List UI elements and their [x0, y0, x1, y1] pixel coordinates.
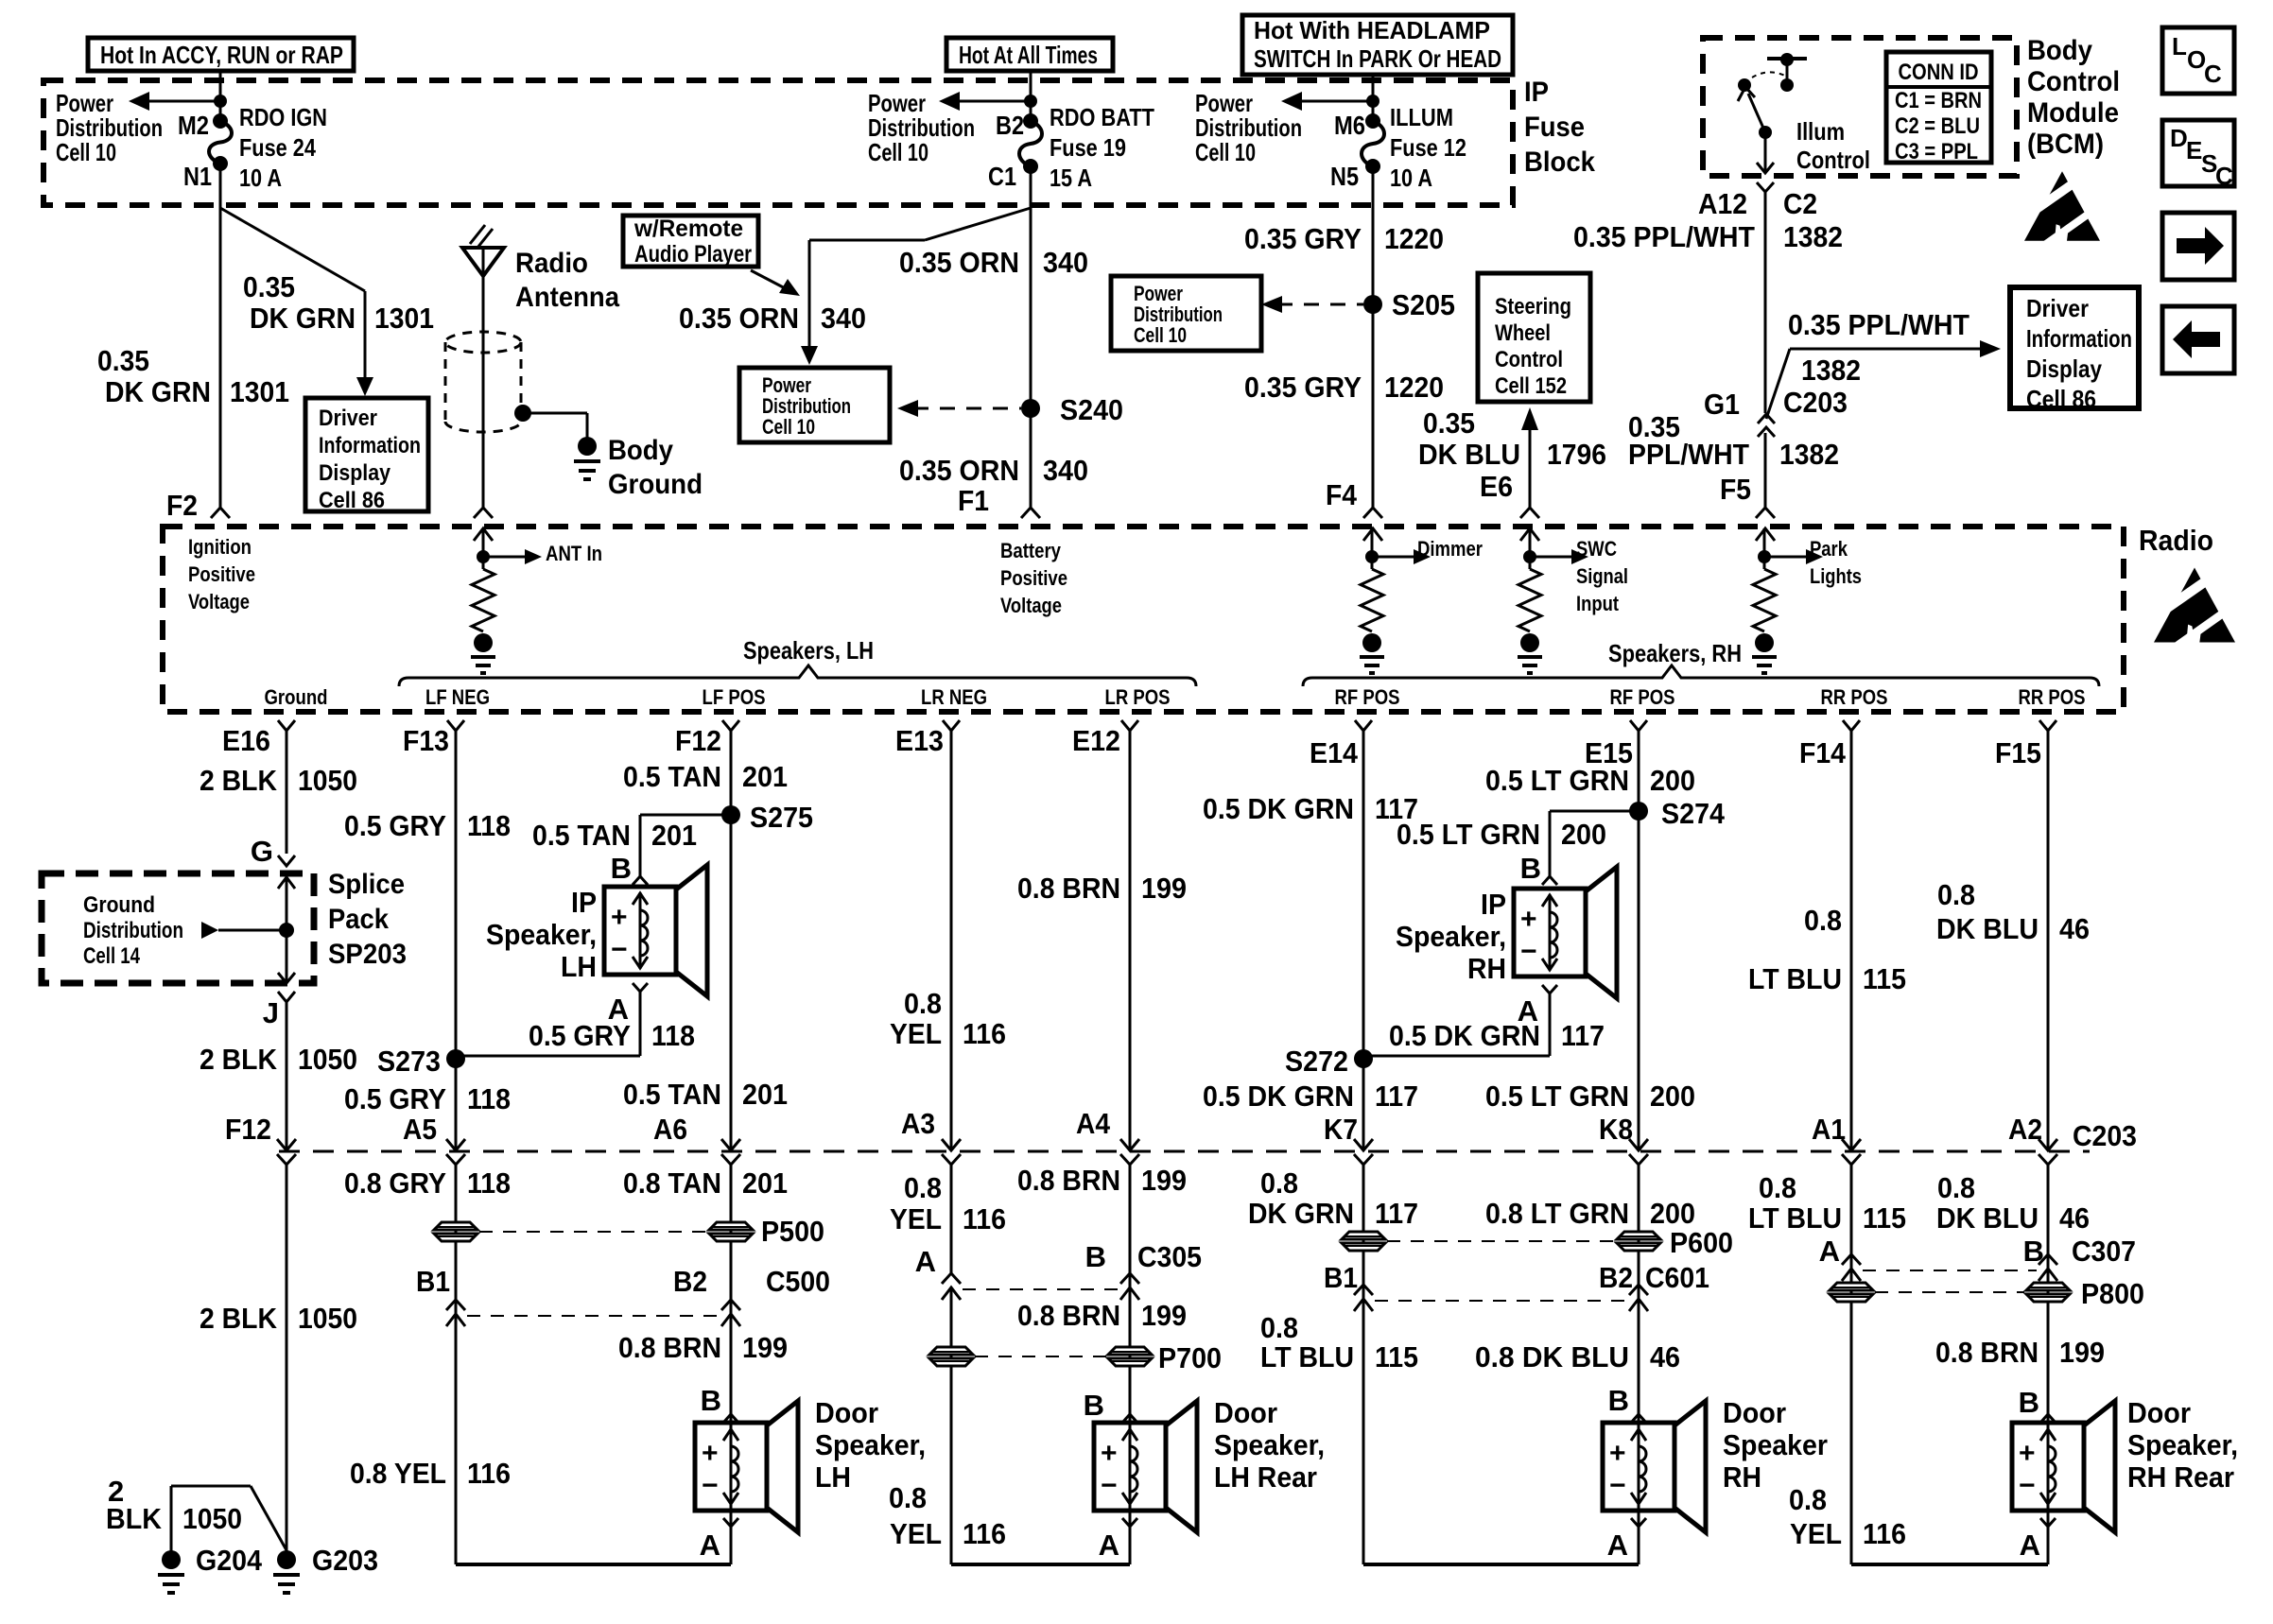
svg-text:Body: Body [2027, 35, 2092, 66]
IP Fuse Block dashed box [43, 80, 1513, 205]
svg-text:115: 115 [1375, 1340, 1418, 1373]
svg-text:Voltage: Voltage [1000, 594, 1062, 617]
svg-text:G204: G204 [196, 1544, 263, 1577]
Door Speaker LH symbol [695, 1423, 767, 1511]
svg-text:1050: 1050 [182, 1502, 242, 1535]
Ground Distribution Cell 14 dashed box (splice pack) [42, 873, 314, 983]
wire N1 down to radio F2 [219, 164, 222, 508]
wire A1 down [1850, 1165, 1853, 1564]
svg-text:B1: B1 [416, 1265, 450, 1298]
svg-text:C: C [2215, 162, 2233, 190]
terminal A chevron (door LH rear) [1122, 1518, 1137, 1527]
inline connector P600 [1617, 1232, 1660, 1239]
connector crossing E16 at C203 row [277, 1139, 296, 1150]
svg-text:Voltage: Voltage [188, 590, 250, 613]
connector crossing B1/C500 [446, 1300, 465, 1310]
wire S272 to C203 row [1362, 1059, 1365, 1150]
Driver Information Display Cell 86 box (left) [305, 398, 428, 511]
dashed link A-B C307 [1863, 1270, 2037, 1271]
wire door LH A down [730, 1527, 733, 1564]
svg-text:+: + [611, 902, 628, 933]
svg-text:118: 118 [467, 1082, 511, 1115]
svg-text:RDO BATT: RDO BATT [1050, 103, 1154, 131]
svg-text:340: 340 [821, 302, 866, 335]
svg-text:B: B [611, 852, 632, 885]
terminal B chevron (door LH) [723, 1414, 738, 1423]
wire A2 down [2047, 1165, 2050, 1564]
svg-text:F14: F14 [1799, 736, 1847, 769]
splice S273 [446, 1049, 465, 1068]
node junction [214, 95, 227, 108]
wire E12 down to C203 row [1129, 731, 1132, 1150]
svg-text:200: 200 [1561, 818, 1606, 851]
dashed link to P800 [1875, 1291, 2024, 1293]
svg-text:C307: C307 [2072, 1235, 2136, 1268]
svg-text:Battery: Battery [1000, 539, 1062, 562]
svg-text:E: E [2186, 136, 2202, 164]
svg-text:N1: N1 [183, 162, 212, 191]
branch wire to Driver Information Display [220, 208, 365, 291]
svg-text:0.8 BRN: 0.8 BRN [1017, 1164, 1120, 1197]
fuse F24 RDO IGN 10A [213, 113, 228, 129]
svg-text:Speaker,: Speaker, [1396, 920, 1506, 953]
svg-text:F12: F12 [225, 1113, 271, 1146]
svg-text:0.35: 0.35 [97, 344, 149, 377]
wire door RH rear A down [2047, 1527, 2050, 1564]
svg-text:0.35 ORN: 0.35 ORN [899, 246, 1019, 279]
svg-text:ANT In: ANT In [546, 542, 602, 565]
illum control switch [1767, 57, 1807, 60]
svg-text:116: 116 [467, 1457, 511, 1490]
svg-text:Speakers, LH: Speakers, LH [743, 636, 874, 665]
svg-text:Driver: Driver [2026, 294, 2089, 322]
svg-text:0.8 BRN: 0.8 BRN [618, 1331, 721, 1364]
arrow from w/Remote box to wire [751, 270, 790, 291]
svg-text:Signal: Signal [1576, 564, 1628, 588]
svg-text:S205: S205 [1392, 288, 1455, 321]
svg-text:118: 118 [651, 1019, 695, 1052]
svg-text:S274: S274 [1661, 797, 1726, 830]
svg-text:0.8: 0.8 [1260, 1311, 1298, 1344]
connector crossing K7 at C203 row [1354, 1139, 1373, 1150]
svg-text:CONN ID: CONN ID [1899, 60, 1979, 85]
svg-text:DK GRN: DK GRN [1248, 1197, 1354, 1230]
dashed arrow S240 to Power Distribution box [913, 407, 1021, 410]
svg-text:IP: IP [1524, 77, 1549, 108]
svg-text:Radio: Radio [2139, 524, 2213, 557]
svg-text:115: 115 [1863, 1201, 1906, 1235]
svg-text:46: 46 [2059, 1201, 2090, 1235]
svg-text:Lights: Lights [1810, 564, 1862, 588]
svg-text:C203: C203 [1783, 386, 1848, 419]
wire from switch to BCM edge with arrow [1764, 132, 1767, 171]
svg-text:Speakers, RH: Speakers, RH [1608, 639, 1742, 667]
svg-text:LH: LH [815, 1460, 851, 1494]
svg-text:0.35 PPL/WHT: 0.35 PPL/WHT [1573, 220, 1755, 253]
svg-text:0.5 DK GRN: 0.5 DK GRN [1203, 792, 1354, 825]
dashed link B1-B2 (RF) [1375, 1300, 1627, 1302]
svg-text:C500: C500 [766, 1265, 830, 1298]
wire below C203 to grounds [286, 1165, 288, 1552]
label box "Hot In ACCY, RUN or RAP" [88, 38, 354, 71]
svg-text:Illum: Illum [1796, 117, 1845, 146]
svg-text:C2: C2 [1783, 187, 1817, 220]
label box "w/Remote Audio Player" [623, 216, 758, 267]
radio output connector chevron [1121, 720, 1138, 731]
connector crossing A1 at C203 row [1842, 1139, 1861, 1150]
svg-text:Display: Display [319, 460, 391, 486]
svg-text:C2 = BLU: C2 = BLU [1895, 113, 1980, 139]
svg-text:B2: B2 [1599, 1261, 1633, 1294]
wire K8 down [1638, 1165, 1640, 1564]
splice pack wire entry arrow [286, 873, 288, 928]
Driver Information Display Cell 86 box (right) [2010, 287, 2139, 408]
wire from Hot At All Times box to fuse 19 [1030, 71, 1032, 121]
svg-text:YEL: YEL [1790, 1517, 1842, 1550]
splice pack wire exit arrow [286, 930, 288, 981]
svg-text:LF NEG: LF NEG [425, 685, 490, 709]
switch arm with arrow [1748, 94, 1765, 132]
svg-text:A1: A1 [1812, 1113, 1846, 1146]
svg-text:1382: 1382 [1779, 438, 1839, 471]
bottom wire to door speaker LH A [456, 1563, 731, 1566]
connector crossing A6 at C203 row [721, 1139, 740, 1150]
terminal B chevron [633, 876, 648, 885]
svg-text:DK BLU: DK BLU [1936, 1201, 2039, 1235]
radio output connector chevron [1355, 720, 1372, 731]
svg-text:LR POS: LR POS [1105, 685, 1171, 709]
svg-text:Control: Control [2027, 66, 2120, 97]
dashed link to P500 [479, 1231, 707, 1233]
wire E13 down to C203 row [950, 731, 953, 1150]
dashed link to P700 [975, 1356, 1106, 1357]
svg-text:Ignition: Ignition [188, 535, 252, 559]
svg-text:−: − [702, 1470, 719, 1501]
splice S275 [721, 805, 740, 824]
svg-text:−: − [1101, 1470, 1118, 1501]
svg-text:0.8 LT GRN: 0.8 LT GRN [1485, 1197, 1629, 1230]
svg-text:118: 118 [467, 809, 511, 842]
svg-text:Fuse: Fuse [1524, 112, 1585, 143]
chevron J [278, 992, 295, 1002]
svg-text:B2: B2 [996, 111, 1024, 140]
svg-text:Module: Module [2027, 97, 2119, 129]
wire F12 to S275 [730, 731, 733, 815]
terminal A chevron (IP RH) [1542, 985, 1557, 993]
terminal A chevron [633, 983, 648, 992]
svg-text:Audio Player: Audio Player [634, 241, 752, 268]
svg-text:E6: E6 [1480, 470, 1513, 503]
svg-text:1050: 1050 [298, 1302, 357, 1335]
wire BCM to C203 [1764, 192, 1767, 413]
wire A3 to connector [950, 1165, 953, 1274]
connector chevron F1 at radio edge [1021, 508, 1040, 518]
connector crossing B2/C601 [1629, 1285, 1648, 1295]
svg-text:Fuse 24: Fuse 24 [239, 133, 316, 162]
svg-text:Dimmer: Dimmer [1417, 537, 1483, 561]
svg-text:S272: S272 [1285, 1045, 1348, 1078]
svg-text:10 A: 10 A [239, 164, 282, 192]
svg-text:Cell 14: Cell 14 [83, 943, 140, 969]
svg-text:D: D [2170, 124, 2188, 152]
svg-text:Ground: Ground [83, 892, 155, 918]
splice S272 [1354, 1049, 1373, 1068]
svg-text:0.8: 0.8 [1759, 1171, 1796, 1204]
svg-text:M6: M6 [1334, 111, 1365, 140]
svg-text:Cell 10: Cell 10 [1134, 323, 1187, 347]
svg-text:C1: C1 [988, 162, 1016, 191]
right arrow reference box [2162, 213, 2234, 280]
svg-text:0.8: 0.8 [1937, 1171, 1975, 1204]
svg-text:0.35 GRY: 0.35 GRY [1244, 371, 1362, 404]
svg-text:Information: Information [2026, 324, 2132, 353]
IP Speaker RH symbol [1514, 889, 1586, 976]
svg-text:1301: 1301 [230, 375, 289, 408]
svg-text:J: J [263, 996, 279, 1029]
wire E15 to S274 [1638, 731, 1640, 811]
terminal B chevron (door LH rear) [1122, 1414, 1137, 1423]
ESD symbol (radio) [2154, 567, 2235, 642]
connector crossing A2 at C203 row [2039, 1139, 2057, 1150]
svg-text:L: L [2172, 32, 2187, 60]
svg-text:Cell 10: Cell 10 [762, 415, 815, 439]
svg-text:P700: P700 [1158, 1341, 1222, 1374]
dashed arrow S205 to Power Distribution box [1277, 303, 1363, 306]
svg-text:116: 116 [963, 1517, 1006, 1550]
Power Distribution Cell 10 box (S240) [739, 368, 890, 442]
svg-text:Ground: Ground [608, 469, 703, 500]
svg-text:0.8: 0.8 [1789, 1483, 1827, 1516]
svg-text:YEL: YEL [890, 1202, 942, 1235]
svg-text:Driver: Driver [319, 406, 377, 431]
svg-text:F15: F15 [1995, 736, 2041, 769]
svg-text:PPL/WHT: PPL/WHT [1628, 438, 1749, 471]
wire [1529, 528, 1532, 557]
svg-text:Cell 10: Cell 10 [56, 138, 116, 166]
svg-text:C203: C203 [2073, 1119, 2137, 1152]
svg-text:B2: B2 [673, 1265, 707, 1298]
svg-text:Steering: Steering [1495, 294, 1571, 320]
svg-text:Door: Door [1723, 1396, 1786, 1429]
svg-text:0.8 BRN: 0.8 BRN [1017, 1299, 1120, 1332]
svg-text:117: 117 [1375, 1197, 1418, 1230]
node junction [1366, 95, 1379, 108]
svg-text:Speaker,: Speaker, [1214, 1428, 1325, 1461]
svg-text:B1: B1 [1324, 1261, 1358, 1294]
connector chevron F2 at radio edge [211, 508, 230, 518]
wire from Hot In ACCY box to fuse 24 [219, 71, 222, 121]
svg-text:200: 200 [1650, 764, 1695, 797]
svg-text:Cell 152: Cell 152 [1495, 373, 1567, 399]
Door Speaker RH symbol [1603, 1423, 1674, 1511]
svg-text:199: 199 [742, 1331, 788, 1364]
svg-text:46: 46 [1650, 1340, 1680, 1373]
svg-text:RF POS: RF POS [1335, 685, 1400, 709]
svg-text:A: A [1819, 1235, 1840, 1268]
svg-text:+: + [1520, 904, 1537, 935]
svg-text:Distribution: Distribution [83, 918, 183, 943]
svg-text:1382: 1382 [1801, 354, 1861, 387]
svg-text:RH Rear: RH Rear [2127, 1460, 2234, 1494]
radio output connector chevron [1843, 720, 1860, 731]
left arrow reference box [2162, 306, 2234, 373]
radio output connector chevron [722, 720, 739, 731]
svg-text:Input: Input [1576, 592, 1620, 615]
svg-text:1220: 1220 [1384, 222, 1444, 255]
svg-text:G1: G1 [1704, 388, 1740, 421]
Speakers LH brace [399, 665, 1196, 686]
connector C203 dashed row [279, 1150, 2090, 1153]
svg-text:Hot At All Times: Hot At All Times [959, 41, 1098, 69]
wire F14 down to C203 row [1850, 731, 1853, 1150]
splice pack node [279, 923, 294, 938]
wire [1371, 528, 1374, 557]
node junction [1024, 95, 1037, 108]
svg-text:340: 340 [1043, 454, 1088, 487]
connector crossing A3 at C203 row [942, 1139, 961, 1150]
svg-text:Wheel: Wheel [1495, 320, 1551, 346]
inline connector P500 [709, 1222, 753, 1230]
terminal B chevron (IP RH) [1542, 876, 1557, 885]
svg-text:0.8 GRY: 0.8 GRY [344, 1166, 446, 1200]
fuse F12 ILLUM 10A [1365, 113, 1380, 129]
svg-text:F12: F12 [675, 724, 721, 757]
svg-text:Fuse 12: Fuse 12 [1390, 133, 1466, 162]
svg-text:LT BLU: LT BLU [1748, 1201, 1842, 1235]
wire C203 to radio F5 [1764, 433, 1767, 508]
svg-text:M2: M2 [178, 111, 209, 140]
label box "Hot With HEADLAMP SWITCH In PARK Or HEAD" [1242, 15, 1513, 75]
wire RDO BATT to remote audio branch [925, 208, 1031, 240]
svg-text:E13: E13 [895, 724, 944, 757]
svg-text:A6: A6 [653, 1113, 687, 1146]
dashed link to P600 [1387, 1240, 1615, 1242]
svg-text:Antenna: Antenna [515, 282, 619, 313]
svg-text:Splice: Splice [328, 869, 405, 900]
svg-text:F4: F4 [1326, 478, 1358, 511]
svg-text:1050: 1050 [298, 1043, 357, 1076]
branch wire to G204 [171, 1485, 251, 1488]
svg-text:1796: 1796 [1547, 438, 1606, 471]
svg-text:SWITCH In PARK Or HEAD: SWITCH In PARK Or HEAD [1254, 44, 1501, 73]
svg-text:S240: S240 [1060, 393, 1123, 426]
svg-text:Door: Door [815, 1396, 878, 1429]
bottom wire to door speaker LH Rear A [951, 1563, 1130, 1566]
inline connector P700 [1108, 1347, 1152, 1355]
svg-text:E14: E14 [1310, 736, 1359, 769]
svg-text:0.5 LT GRN: 0.5 LT GRN [1485, 764, 1629, 797]
terminal A chevron (door RH) [1631, 1518, 1646, 1527]
svg-text:B: B [1520, 852, 1541, 885]
svg-text:1301: 1301 [374, 302, 434, 335]
terminal A chevron (door LH) [723, 1518, 738, 1527]
svg-text:Hot With HEADLAMP: Hot With HEADLAMP [1254, 16, 1490, 44]
svg-text:Cell 86: Cell 86 [2026, 385, 2096, 413]
svg-text:BLK: BLK [106, 1502, 163, 1535]
svg-text:0.5 DK GRN: 0.5 DK GRN [1203, 1080, 1354, 1113]
bottom wire to door speaker RH A [1363, 1563, 1639, 1566]
svg-text:Door: Door [2127, 1396, 2191, 1429]
svg-text:Speaker,: Speaker, [2127, 1428, 2238, 1461]
svg-text:w/Remote: w/Remote [633, 216, 743, 242]
Speakers RH brace [1303, 665, 2099, 686]
svg-text:+: + [1101, 1438, 1118, 1469]
svg-text:LT BLU: LT BLU [1260, 1340, 1354, 1373]
connector crossing A4 at C203 row [1120, 1139, 1139, 1150]
wire F13 to S273 [455, 731, 458, 1059]
svg-text:46: 46 [2059, 912, 2090, 945]
svg-text:N5: N5 [1330, 162, 1359, 191]
inline connector (RF) [1342, 1232, 1385, 1239]
svg-text:+: + [702, 1438, 719, 1469]
svg-text:0.5 TAN: 0.5 TAN [623, 760, 721, 793]
svg-text:0.5 TAN: 0.5 TAN [532, 819, 631, 852]
svg-text:−: − [1520, 936, 1537, 967]
wire IP RH speaker A to S272 [1549, 993, 1552, 1056]
svg-text:DK BLU: DK BLU [1936, 912, 2039, 945]
wire S273 to C203 row [455, 1059, 458, 1150]
svg-text:Park: Park [1810, 537, 1848, 561]
svg-text:SWC: SWC [1576, 537, 1617, 561]
ground G203 [277, 1550, 296, 1569]
arrow to Power Distribution Cell 10 [952, 100, 1031, 103]
svg-text:F5: F5 [1720, 473, 1751, 506]
fuse F19 RDO BATT 15A [1023, 113, 1038, 129]
radio output connector chevron [447, 720, 464, 731]
svg-text:S275: S275 [750, 801, 813, 834]
svg-text:199: 199 [1141, 1164, 1187, 1197]
label box "Hot At All Times" [946, 38, 1113, 71]
inline connector (RR) [1830, 1283, 1873, 1290]
splice S205 [1363, 295, 1382, 314]
svg-text:P800: P800 [2081, 1277, 2144, 1310]
svg-text:Door: Door [1214, 1396, 1277, 1429]
svg-text:2 BLK: 2 BLK [200, 764, 278, 797]
svg-text:A4: A4 [1076, 1107, 1111, 1140]
Radio dashed box [163, 527, 2124, 712]
svg-text:199: 199 [1141, 1299, 1187, 1332]
svg-text:201: 201 [742, 1166, 788, 1200]
Power Distribution Cell 10 box (S205) [1111, 276, 1261, 351]
connector crossing B/C305 [1120, 1273, 1139, 1284]
svg-text:SP203: SP203 [328, 939, 407, 970]
wire A5 to door harness [455, 1165, 458, 1564]
svg-text:0.8: 0.8 [889, 1481, 927, 1514]
ground G204 [162, 1550, 181, 1569]
svg-text:15 A: 15 A [1050, 164, 1092, 192]
svg-text:Speaker,: Speaker, [486, 918, 597, 951]
svg-text:DK BLU: DK BLU [1418, 438, 1520, 471]
svg-text:199: 199 [2059, 1336, 2105, 1369]
body ground symbol [578, 437, 597, 456]
arrow to Power Distribution Cell 10 [142, 100, 220, 103]
svg-text:10 A: 10 A [1390, 164, 1432, 192]
svg-text:IP: IP [571, 886, 597, 919]
svg-text:ILLUM: ILLUM [1390, 103, 1453, 131]
svg-text:G: G [251, 835, 273, 868]
ground distribution feed arrow [218, 929, 286, 932]
svg-text:0.8: 0.8 [1804, 904, 1842, 937]
Door Speaker RH Rear symbol [2012, 1423, 2084, 1511]
svg-text:S273: S273 [377, 1045, 441, 1078]
wire to inline connector [950, 1289, 953, 1564]
wire S274 to C203 row [1638, 811, 1640, 1150]
svg-text:1220: 1220 [1384, 371, 1444, 404]
svg-text:Cell 86: Cell 86 [319, 488, 385, 513]
svg-text:RH: RH [1467, 952, 1506, 985]
LOC reference box [2162, 27, 2234, 94]
wire K7 down [1362, 1165, 1365, 1564]
